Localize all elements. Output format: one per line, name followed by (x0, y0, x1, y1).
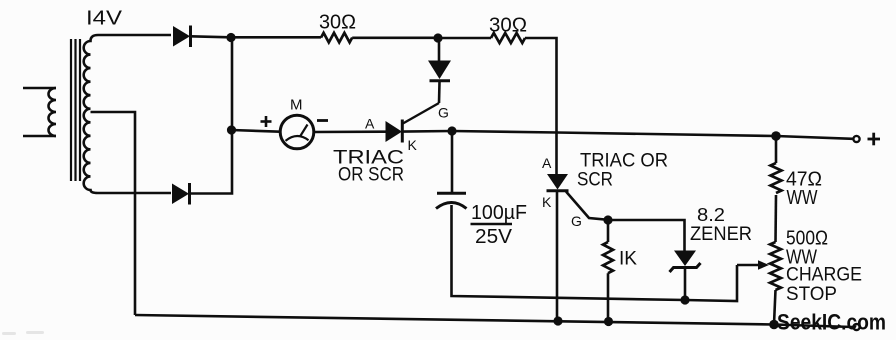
label 8.2 ZENER (690, 205, 752, 245)
wire R1 to node B (352, 36, 438, 39)
label 100uF / 25V (471, 202, 528, 248)
thyristor SCR1 (TRIAC or SCR) (386, 120, 403, 143)
wire node A to resistor R1 (231, 36, 321, 39)
resistor R1 30 ohm (321, 33, 352, 43)
wire right rail top to 47 ohm (775, 136, 778, 163)
wire D3 to gate of SCR1 (402, 103, 439, 124)
svg-text:ZENER: ZENER (690, 224, 752, 245)
wiper arrow of potentiometer (737, 260, 769, 269)
resistor R2 30 ohm (491, 33, 525, 43)
terminal plus output (853, 136, 859, 142)
label TRIAC OR SCR (first) (333, 148, 404, 186)
scan smudge bottom left (2, 331, 44, 335)
node I junction bottom right (769, 320, 779, 330)
capacitor C1 100uF 25V (436, 193, 467, 208)
label plus meter (261, 116, 272, 127)
wire node E down to 1K resistor (607, 220, 610, 242)
node G junction SCR2 cathode on bottom rail (553, 316, 562, 325)
wire potentiometer bottom to bottom rail (774, 290, 776, 324)
wire SCR2 gate (566, 192, 608, 220)
label TRIAC OR SCR (second) (577, 151, 668, 191)
diode D1 (top rectifier) (173, 26, 191, 48)
label minus meter (317, 119, 328, 122)
diode D3 (gate feed diode) (428, 38, 451, 103)
svg-text:25V: 25V (475, 226, 513, 248)
thyristor SCR2 (TRIAC or SCR) (547, 174, 569, 191)
svg-text:IK: IK (619, 249, 637, 270)
svg-text:K: K (542, 194, 552, 210)
wire 47 ohm to potentiometer (774, 195, 777, 242)
svg-text:100µF: 100µF (471, 202, 527, 224)
wire bottom rail (negative bus) (135, 315, 774, 325)
wire node C down to capacitor C1 (451, 131, 454, 193)
wire SCR2 cathode down to bottom rail (556, 192, 559, 321)
transformer T1 primary winding (23, 88, 56, 136)
svg-text:CHARGE: CHARGE (786, 265, 862, 286)
svg-text:G: G (438, 105, 449, 121)
resistor R4 47 ohm WW (771, 163, 782, 193)
svg-text:8.2: 8.2 (697, 205, 725, 225)
svg-text:A: A (365, 116, 375, 132)
wire meter row left (232, 130, 281, 132)
label 47ohm WW (786, 169, 822, 210)
node D junction right rail top (771, 131, 781, 141)
wire meter to SCR1 anode (314, 130, 386, 133)
node E gate junction SCR2 (603, 215, 612, 224)
svg-text:OR SCR: OR SCR (338, 165, 404, 186)
label plus terminal (868, 133, 881, 146)
wire main output line to right rail (452, 131, 776, 136)
wire R2 to SCR2 anode (vertical drop) (525, 38, 557, 174)
svg-text:A: A (542, 155, 552, 171)
wire to plus terminal (776, 136, 853, 139)
svg-text:STOP: STOP (786, 284, 837, 305)
resistor R3 1K (603, 242, 613, 273)
svg-text:SCR: SCR (577, 170, 613, 191)
node H junction 1K on bottom rail (604, 317, 613, 326)
meter M1 (280, 115, 314, 149)
wire node A column to meter row (227, 125, 236, 134)
svg-text:SeekIC.com: SeekIC.com (777, 310, 886, 335)
svg-text:G: G (571, 213, 582, 229)
svg-text:TRIAC OR: TRIAC OR (580, 151, 668, 172)
svg-text:WW: WW (787, 187, 818, 209)
zener diode Z1 8.2V (670, 251, 701, 302)
svg-text:K: K (408, 137, 418, 153)
transformer T1 core (71, 39, 80, 181)
wire node B to resistor R2 (438, 37, 491, 40)
node F zener bottom junction (680, 295, 689, 304)
wire node E to zener (608, 220, 685, 251)
node B junction (top, D3 tap) (433, 33, 442, 42)
wire to minus terminal (774, 325, 853, 328)
wire capacitor bottom to lower bus (452, 205, 738, 301)
svg-text:30Ω: 30Ω (489, 15, 527, 37)
node C junction (cap tap) (447, 126, 456, 135)
wire center tap (91, 112, 136, 315)
wire D2 cathode up to node A (190, 37, 233, 193)
svg-text:M: M (290, 97, 303, 114)
wire D1 cathode to node A (191, 36, 231, 37)
wire 1K bottom to bottom rail (607, 273, 610, 321)
transformer T1 secondary winding (center-tapped) (84, 35, 171, 193)
wire SCR1 cathode to node C (402, 130, 452, 133)
node A junction top-left (226, 33, 235, 42)
svg-text:I4V: I4V (86, 8, 123, 30)
svg-text:30Ω: 30Ω (319, 12, 356, 34)
label 500ohm WW CHARGE STOP (786, 228, 862, 306)
potentiometer R5 500 ohm (770, 242, 781, 290)
diode D2 (bottom rectifier) (172, 183, 190, 205)
terminal minus output (853, 324, 859, 330)
